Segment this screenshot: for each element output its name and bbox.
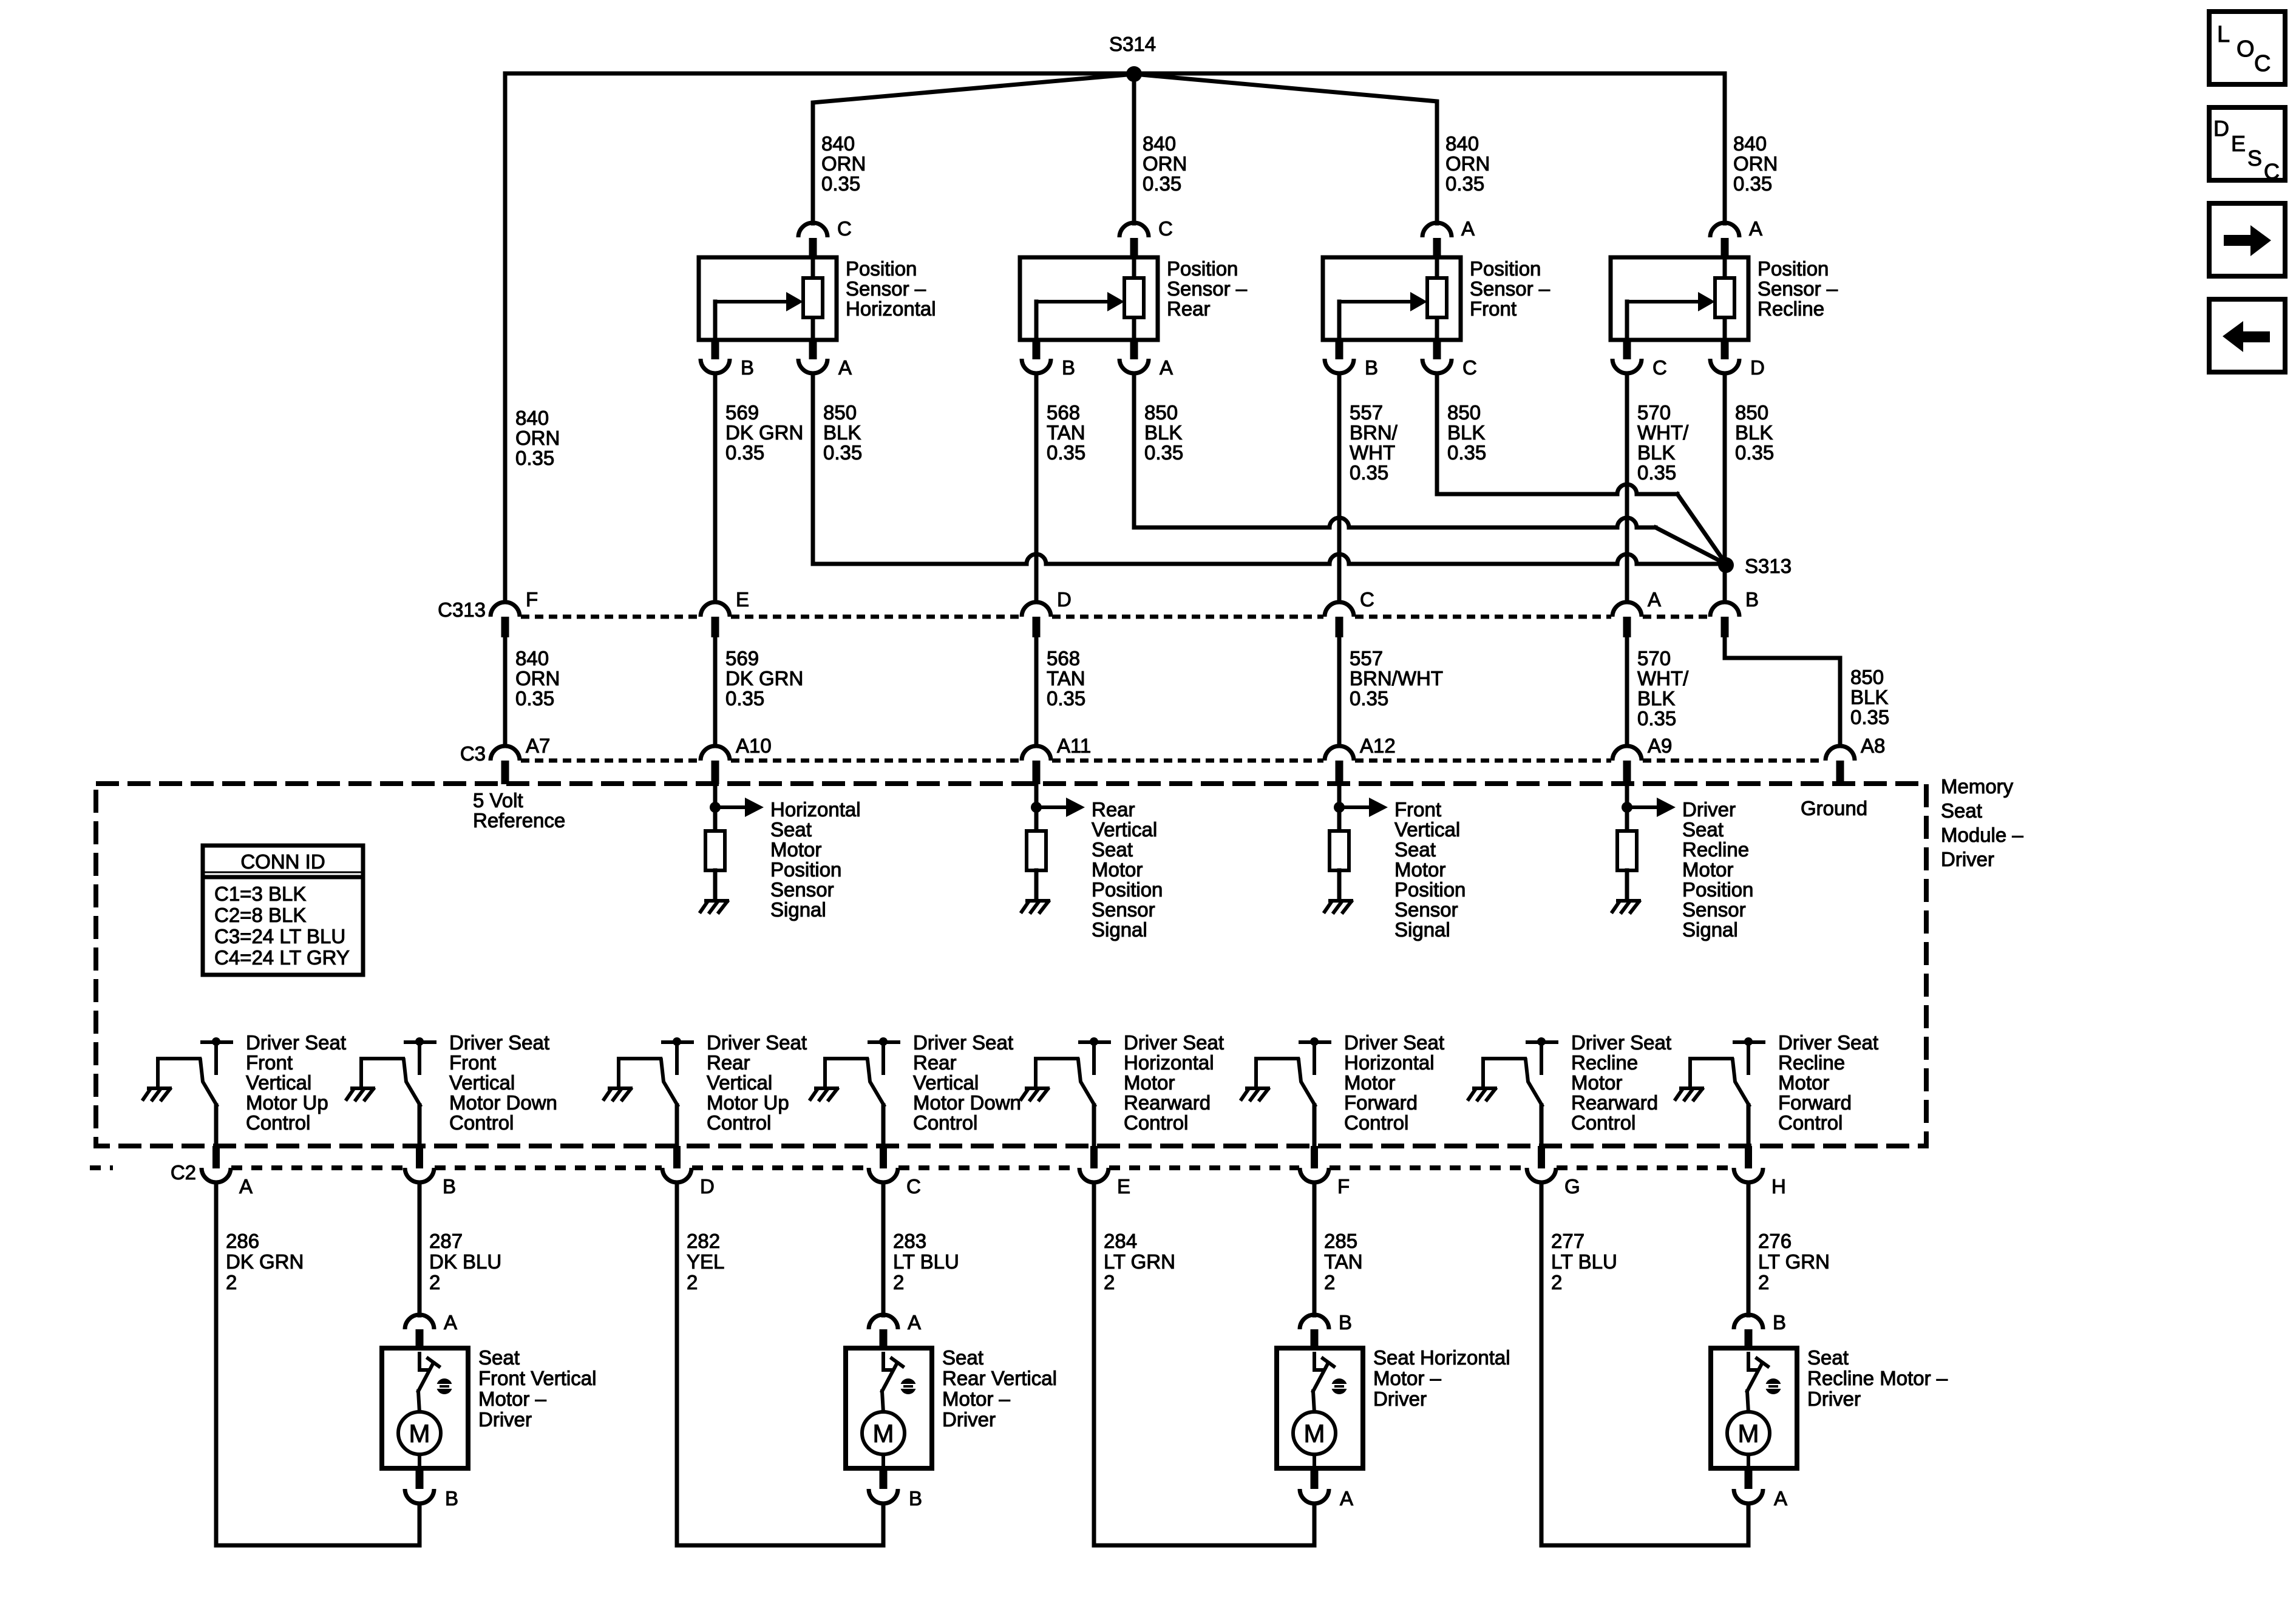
- svg-text:Position: Position: [1394, 878, 1466, 901]
- svg-text:A: A: [1648, 588, 1661, 611]
- svg-text:Motor: Motor: [1682, 858, 1733, 881]
- seat front vertical motor motor winding: [418, 1391, 419, 1412]
- svg-text:D: D: [700, 1175, 715, 1198]
- svg-text:C: C: [837, 217, 852, 240]
- ground symbol for switch E: [1021, 1088, 1048, 1100]
- svg-text:Rearward: Rearward: [1571, 1091, 1658, 1114]
- svg-text:Control: Control: [707, 1111, 771, 1134]
- svg-text:ORN: ORN: [1733, 152, 1778, 175]
- svg-text:2: 2: [1104, 1271, 1115, 1293]
- wire from C2 down and over to seat horizontal motor pin A: [1094, 1182, 1314, 1545]
- svg-text:WHT: WHT: [1350, 441, 1395, 464]
- position sensor Front wiper arrow: [1337, 302, 1342, 340]
- position sensor Recline connector pin D (bottom right): [1721, 340, 1729, 359]
- seat front vertical motor connector pin A (top): [405, 1315, 434, 1329]
- svg-text:F: F: [1337, 1175, 1350, 1198]
- svg-text:284: 284: [1104, 1230, 1137, 1252]
- switch output wire to C2 pin G: [1540, 1105, 1544, 1147]
- svg-text:Motor: Motor: [770, 838, 821, 861]
- svg-text:LT BLU: LT BLU: [1551, 1250, 1617, 1273]
- svg-text:Driver Seat: Driver Seat: [449, 1031, 549, 1054]
- connector C3 pin A12: [1325, 746, 1354, 761]
- seat front vertical motor connector pin B (bottom): [416, 1468, 424, 1489]
- svg-text:Driver Seat: Driver Seat: [913, 1031, 1013, 1054]
- connector C2 dotted line: [90, 1165, 113, 1170]
- svg-text:L: L: [2217, 22, 2230, 47]
- position sensor Recline connector pin C (bottom left): [1623, 340, 1631, 359]
- position sensor Recline potentiometer: [1723, 258, 1727, 278]
- driver switch Rear Vertical Motor Up arm: [619, 1057, 661, 1060]
- wire from C313 to C3 at x=2206: [1337, 637, 1342, 746]
- svg-text:Seat: Seat: [1941, 799, 1982, 822]
- svg-text:Driver Seat: Driver Seat: [707, 1031, 807, 1054]
- wire 850 BLK from sensor rear pin A to splice S313: [1132, 373, 1136, 527]
- wire from C2 down and over to seat front vertical motor pin B: [216, 1182, 419, 1545]
- svg-text:0.35: 0.35: [1144, 441, 1183, 464]
- svg-text:0.35: 0.35: [725, 687, 764, 710]
- svg-text:Driver Seat: Driver Seat: [246, 1031, 346, 1054]
- svg-text:Horizontal: Horizontal: [846, 297, 936, 320]
- svg-text:B: B: [443, 1175, 456, 1198]
- switch output wire to C2 pin A: [214, 1105, 219, 1147]
- svg-text:Rear: Rear: [1167, 297, 1211, 320]
- wire 557 BRN/WHT from sensor front pin B to C313 pin C: [1337, 373, 1342, 601]
- svg-text:Position: Position: [1682, 878, 1753, 901]
- svg-text:0.35: 0.35: [1447, 441, 1486, 464]
- svg-text:0.35: 0.35: [1637, 707, 1676, 730]
- svg-text:C: C: [1652, 356, 1667, 379]
- svg-text:Control: Control: [1124, 1111, 1188, 1134]
- svg-text:Motor: Motor: [1394, 858, 1445, 881]
- svg-text:B: B: [909, 1487, 922, 1510]
- signal arrow at x=1178: [715, 805, 745, 809]
- svg-text:BLK: BLK: [1637, 687, 1675, 710]
- seat horizontal motor body: [1277, 1348, 1363, 1468]
- connector C3 pin A9: [1612, 746, 1642, 761]
- svg-text:0.35: 0.35: [1047, 687, 1085, 710]
- svg-text:CONN ID: CONN ID: [240, 850, 325, 873]
- wire from C2 to seat recline motor pin B: [1747, 1182, 1751, 1315]
- seat recline motor circuit breaker: [1748, 1352, 1759, 1370]
- ground symbol for switch H: [1676, 1088, 1702, 1100]
- seat rear vertical motor body: [846, 1348, 932, 1468]
- svg-text:C3=24 LT BLU: C3=24 LT BLU: [214, 925, 345, 947]
- position sensor Front connector pin A (top): [1422, 223, 1452, 237]
- svg-text:Vertical: Vertical: [1394, 818, 1460, 841]
- svg-text:Motor: Motor: [1571, 1071, 1622, 1094]
- position sensor Horizontal connector pin A (bottom right): [809, 340, 817, 359]
- svg-text:Recline: Recline: [1682, 838, 1749, 861]
- position sensor Recline wiper arrow: [1625, 302, 1629, 340]
- pull-up resistor at x=2206: [1337, 807, 1342, 831]
- svg-text:C: C: [1158, 217, 1173, 240]
- forward arrow icon box: [2209, 203, 2285, 276]
- svg-text:ORN: ORN: [515, 427, 560, 449]
- svg-text:0.35: 0.35: [1637, 461, 1676, 484]
- svg-text:Sensor: Sensor: [1682, 898, 1746, 921]
- svg-text:Driver Seat: Driver Seat: [1124, 1031, 1224, 1054]
- position sensor Horizontal potentiometer: [811, 258, 815, 278]
- svg-text:WHT/: WHT/: [1637, 421, 1689, 444]
- svg-text:Signal: Signal: [1682, 918, 1738, 941]
- svg-text:Module –: Module –: [1941, 824, 2023, 846]
- svg-text:F: F: [526, 588, 538, 611]
- ground symbol for switch B: [347, 1088, 373, 1100]
- connector C2 pin G: [1538, 1146, 1545, 1168]
- connector C313 pin C: [1325, 602, 1354, 617]
- svg-text:557: 557: [1350, 647, 1383, 670]
- svg-text:557: 557: [1350, 401, 1383, 424]
- svg-text:C3: C3: [460, 742, 486, 765]
- svg-text:Motor Up: Motor Up: [707, 1091, 789, 1114]
- svg-text:2: 2: [1324, 1271, 1335, 1293]
- position sensor Horizontal connector pin C (top): [798, 223, 827, 237]
- svg-text:A11: A11: [1057, 734, 1091, 757]
- svg-text:568: 568: [1047, 647, 1080, 670]
- svg-text:283: 283: [893, 1230, 926, 1252]
- svg-text:S314: S314: [1109, 33, 1156, 55]
- svg-text:BRN/WHT: BRN/WHT: [1350, 667, 1443, 690]
- ground symbol for switch A: [143, 1088, 170, 1100]
- pull-up resistor at x=2680: [1625, 807, 1629, 831]
- svg-text:Rear Vertical: Rear Vertical: [942, 1367, 1057, 1389]
- position sensor Front potentiometer: [1435, 258, 1439, 278]
- connector C313 pin A: [1612, 602, 1642, 617]
- svg-text:850: 850: [1850, 666, 1884, 688]
- position sensor Rear wiper arrow: [1034, 302, 1039, 340]
- wire from C2 to seat rear vertical motor pin A: [881, 1182, 886, 1315]
- svg-text:840: 840: [515, 647, 549, 670]
- svg-text:Driver: Driver: [1682, 798, 1736, 821]
- position sensor Horizontal connector pin B (bottom left): [712, 340, 719, 359]
- wire 570 WHT/BLK from sensor recline pin C to C313 pin A: [1625, 373, 1629, 601]
- position sensor Rear connector pin B (bottom left): [1033, 340, 1041, 359]
- wire from C2 to seat front vertical motor pin A: [418, 1182, 422, 1315]
- svg-text:Motor Down: Motor Down: [913, 1091, 1021, 1114]
- wire from C313 to C3 at x=2680: [1625, 637, 1629, 746]
- connector C2 pin B: [416, 1146, 423, 1168]
- svg-text:0.35: 0.35: [515, 687, 554, 710]
- module input node at x=2206: [1337, 784, 1342, 807]
- svg-text:Horizontal: Horizontal: [1124, 1051, 1214, 1074]
- driver switch Front Vertical Motor Up supply bar: [212, 1037, 220, 1046]
- svg-text:C: C: [906, 1175, 921, 1198]
- position sensor Recline body: [1611, 257, 1748, 340]
- connector C313 pin E: [701, 602, 730, 617]
- svg-text:Driver: Driver: [1373, 1388, 1427, 1410]
- pull-up resistor at x=1707: [1034, 807, 1039, 831]
- svg-text:Motor: Motor: [1092, 858, 1143, 881]
- svg-text:LT BLU: LT BLU: [893, 1250, 959, 1273]
- svg-text:Signal: Signal: [1394, 918, 1450, 941]
- svg-text:DK GRN: DK GRN: [725, 421, 803, 444]
- svg-text:Driver: Driver: [1941, 848, 1994, 870]
- svg-text:287: 287: [429, 1230, 463, 1252]
- svg-text:DK GRN: DK GRN: [725, 667, 803, 690]
- svg-text:DK GRN: DK GRN: [226, 1250, 304, 1273]
- svg-text:850: 850: [1144, 401, 1178, 424]
- svg-text:Rear: Rear: [707, 1051, 750, 1074]
- svg-text:S313: S313: [1745, 555, 1792, 577]
- svg-text:Position: Position: [1758, 257, 1829, 280]
- svg-text:Seat Horizontal: Seat Horizontal: [1373, 1346, 1510, 1369]
- svg-text:B: B: [1745, 588, 1759, 611]
- svg-text:BLK: BLK: [1735, 421, 1773, 444]
- svg-text:Position: Position: [1092, 878, 1163, 901]
- splice S314: [1126, 66, 1142, 82]
- svg-text:0.35: 0.35: [515, 447, 554, 469]
- connector C3 dotted line: [521, 759, 699, 763]
- svg-text:D: D: [2213, 116, 2229, 141]
- svg-text:5 Volt: 5 Volt: [473, 789, 523, 812]
- DESC icon box: [2209, 107, 2285, 180]
- svg-text:Control: Control: [1344, 1111, 1408, 1134]
- CONN ID table: [203, 846, 363, 975]
- svg-text:M: M: [1738, 1419, 1759, 1448]
- svg-text:BLK: BLK: [1447, 421, 1485, 444]
- seat recline motor connector pin A (bottom): [1745, 1468, 1753, 1489]
- svg-text:Vertical: Vertical: [449, 1071, 515, 1094]
- connector C2 pin D: [673, 1146, 681, 1168]
- svg-text:0.35: 0.35: [725, 441, 764, 464]
- connector C3 pin A11: [1022, 746, 1051, 761]
- svg-text:A8: A8: [1861, 734, 1885, 757]
- svg-text:BLK: BLK: [1144, 421, 1182, 444]
- driver switch Rear Vertical Motor Up supply bar: [673, 1037, 681, 1046]
- svg-text:H: H: [1771, 1175, 1786, 1198]
- connector C313 pin B: [1710, 602, 1739, 617]
- svg-text:A9: A9: [1648, 734, 1672, 757]
- svg-text:B: B: [741, 356, 754, 379]
- ground symbol at x=2680: [1612, 901, 1639, 912]
- driver switch Recline Motor Rearward arm: [1483, 1057, 1525, 1060]
- svg-text:840: 840: [821, 132, 855, 155]
- svg-text:Recline: Recline: [1571, 1051, 1638, 1074]
- switch output wire to C2 pin C: [881, 1105, 886, 1147]
- connector C313 pin D: [1022, 602, 1051, 617]
- driver switch Front Vertical Motor Down arm: [361, 1057, 403, 1060]
- svg-text:Seat: Seat: [478, 1346, 520, 1369]
- svg-text:TAN: TAN: [1324, 1250, 1363, 1273]
- position sensor Rear potentiometer: [1132, 258, 1136, 278]
- svg-text:A: A: [1749, 217, 1762, 240]
- ground symbol at x=2206: [1325, 901, 1351, 912]
- svg-text:A: A: [838, 356, 852, 379]
- svg-text:ORN: ORN: [821, 152, 866, 175]
- svg-text:Position: Position: [846, 257, 917, 280]
- svg-text:570: 570: [1637, 647, 1671, 670]
- svg-text:Recline: Recline: [1778, 1051, 1845, 1074]
- svg-text:Signal: Signal: [1092, 918, 1147, 941]
- connector C2 pin H: [1745, 1146, 1752, 1168]
- svg-text:C: C: [1462, 356, 1477, 379]
- seat horizontal motor connector pin A (bottom): [1311, 1468, 1319, 1489]
- svg-text:D: D: [1750, 356, 1765, 379]
- svg-text:Control: Control: [449, 1111, 514, 1134]
- pull-up resistor at x=1178: [713, 807, 718, 831]
- wire S314 to sensor horizontal pin C: [813, 74, 1134, 223]
- seat horizontal motor motor winding: [1313, 1391, 1314, 1412]
- wire 850 BLK from sensor horizontal pin A to splice S313: [811, 373, 815, 564]
- svg-text:S: S: [2247, 146, 2262, 171]
- signal arrow at x=2206: [1339, 805, 1369, 809]
- svg-text:Motor –: Motor –: [942, 1388, 1011, 1410]
- wire 850 BLK from sensor recline pin D through splice S313 to C313 pin B: [1723, 373, 1727, 601]
- position sensor Horizontal wiper arrow: [713, 302, 718, 340]
- svg-text:C1=3 BLK: C1=3 BLK: [214, 883, 306, 905]
- svg-text:Seat: Seat: [1092, 838, 1133, 861]
- driver switch Rear Vertical Motor Down arm: [825, 1057, 867, 1060]
- wire 568 TAN from sensor rear pin B to C313 pin D: [1034, 373, 1039, 601]
- LOC icon box: [2209, 12, 2285, 84]
- svg-text:A: A: [239, 1175, 253, 1198]
- svg-text:Control: Control: [1571, 1111, 1635, 1134]
- svg-text:Seat: Seat: [1682, 818, 1724, 841]
- svg-text:Front: Front: [1394, 798, 1441, 821]
- svg-text:0.35: 0.35: [1445, 172, 1484, 195]
- svg-text:Sensor: Sensor: [1394, 898, 1458, 921]
- svg-text:C: C: [2254, 51, 2271, 76]
- svg-text:2: 2: [429, 1271, 440, 1293]
- wire 569 DK GRN from sensor horizontal pin B to C313 pin E: [713, 373, 718, 601]
- module input node at x=1707: [1034, 784, 1039, 807]
- svg-text:M: M: [409, 1419, 430, 1448]
- wire from C2 to seat horizontal motor pin B: [1313, 1182, 1317, 1315]
- connector C2 pin A: [212, 1146, 220, 1168]
- position sensor Front body: [1323, 257, 1461, 340]
- wire S314 down to sensor rear pin C: [1132, 74, 1136, 223]
- wire from C2 down and over to seat rear vertical motor pin B: [677, 1182, 883, 1545]
- switch output wire to C2 pin F: [1313, 1105, 1317, 1147]
- svg-text:0.35: 0.35: [1143, 172, 1181, 195]
- svg-text:Forward: Forward: [1778, 1091, 1852, 1114]
- seat front vertical motor circuit breaker: [419, 1352, 430, 1370]
- svg-text:C313: C313: [438, 598, 486, 621]
- svg-text:840: 840: [1143, 132, 1176, 155]
- svg-text:DK BLU: DK BLU: [429, 1250, 501, 1273]
- svg-text:Front: Front: [246, 1051, 293, 1074]
- wire from C313 to C3 at x=1178: [713, 637, 718, 746]
- svg-text:Signal: Signal: [770, 898, 826, 921]
- svg-text:Sensor –: Sensor –: [1167, 277, 1248, 300]
- driver switch Horizontal Motor Rearward arm: [1036, 1057, 1078, 1060]
- module input node at x=1178: [713, 784, 718, 807]
- svg-text:570: 570: [1637, 401, 1671, 424]
- svg-text:A: A: [908, 1311, 921, 1334]
- svg-text:Sensor –: Sensor –: [1758, 277, 1838, 300]
- svg-text:Motor Down: Motor Down: [449, 1091, 557, 1114]
- svg-text:568: 568: [1047, 401, 1080, 424]
- seat recline motor body: [1711, 1348, 1797, 1468]
- svg-text:840: 840: [515, 407, 549, 429]
- seat rear vertical motor circuit breaker: [883, 1352, 894, 1370]
- svg-text:Front: Front: [1470, 297, 1517, 320]
- svg-text:Front Vertical: Front Vertical: [478, 1367, 596, 1389]
- svg-text:Vertical: Vertical: [913, 1071, 979, 1094]
- svg-text:E: E: [2231, 131, 2246, 156]
- seat front vertical motor body: [382, 1348, 468, 1468]
- driver switch Front Vertical Motor Up arm: [158, 1057, 200, 1060]
- svg-text:D: D: [1057, 588, 1072, 611]
- svg-text:E: E: [1117, 1175, 1130, 1198]
- svg-text:Vertical: Vertical: [707, 1071, 772, 1094]
- module input node at x=2680: [1625, 784, 1629, 807]
- svg-text:G: G: [1564, 1175, 1580, 1198]
- connector C3 pin A8: [1826, 746, 1855, 761]
- seat rear vertical motor motor winding: [882, 1391, 883, 1412]
- svg-text:Motor –: Motor –: [478, 1388, 547, 1410]
- switch output wire to C2 pin B: [418, 1105, 422, 1147]
- driver switch Horizontal Motor Forward supply bar: [1310, 1037, 1319, 1046]
- svg-text:850: 850: [823, 401, 857, 424]
- svg-text:Sensor: Sensor: [770, 878, 834, 901]
- connector C313 pin F: [491, 602, 520, 617]
- driver switch Rear Vertical Motor Down supply bar: [879, 1037, 888, 1046]
- connector C3 pin A10: [701, 746, 730, 761]
- svg-text:0.35: 0.35: [1047, 441, 1085, 464]
- svg-text:2: 2: [893, 1271, 904, 1293]
- driver switch Horizontal Motor Forward arm: [1256, 1057, 1298, 1060]
- svg-text:A12: A12: [1360, 734, 1396, 757]
- svg-text:Horizontal: Horizontal: [1344, 1051, 1435, 1074]
- splice S313: [1718, 557, 1734, 573]
- connector C2 pin F: [1311, 1146, 1318, 1168]
- back arrow icon box: [2209, 299, 2285, 372]
- svg-text:B: B: [1773, 1311, 1786, 1334]
- ground symbol for switch C: [810, 1088, 837, 1100]
- svg-text:Driver: Driver: [478, 1408, 532, 1431]
- wire S314 to sensor front pin A: [1134, 74, 1437, 223]
- seat horizontal motor connector pin B (top): [1300, 1315, 1329, 1329]
- svg-text:Motor Up: Motor Up: [246, 1091, 328, 1114]
- svg-text:TAN: TAN: [1047, 667, 1085, 690]
- svg-text:BLK: BLK: [823, 421, 861, 444]
- svg-text:BRN/: BRN/: [1350, 421, 1398, 444]
- wire from C2 down and over to seat recline motor pin A: [1541, 1182, 1748, 1545]
- svg-text:Position: Position: [770, 858, 841, 881]
- svg-text:A: A: [1461, 217, 1475, 240]
- svg-text:840: 840: [1445, 132, 1479, 155]
- svg-text:Driver Seat: Driver Seat: [1344, 1031, 1444, 1054]
- svg-text:282: 282: [687, 1230, 720, 1252]
- svg-text:BLK: BLK: [1850, 686, 1888, 708]
- svg-text:Seat: Seat: [1394, 838, 1436, 861]
- svg-text:286: 286: [226, 1230, 259, 1252]
- svg-text:285: 285: [1324, 1230, 1357, 1252]
- signal arrow at x=2680: [1627, 805, 1657, 809]
- svg-text:A7: A7: [526, 734, 550, 757]
- svg-text:A: A: [444, 1311, 457, 1334]
- svg-text:Sensor –: Sensor –: [1470, 277, 1550, 300]
- position sensor Front connector pin B (bottom left): [1336, 340, 1343, 359]
- connector C3 pin A7: [491, 746, 520, 761]
- seat recline motor motor winding: [1747, 1391, 1748, 1412]
- svg-text:0.35: 0.35: [1350, 687, 1388, 710]
- svg-text:M: M: [1304, 1419, 1325, 1448]
- svg-text:Control: Control: [246, 1111, 310, 1134]
- svg-text:Motor: Motor: [1344, 1071, 1395, 1094]
- svg-text:C: C: [2264, 159, 2280, 184]
- svg-text:850: 850: [1735, 401, 1768, 424]
- svg-text:C4=24 LT GRY: C4=24 LT GRY: [214, 946, 350, 969]
- svg-text:0.35: 0.35: [1733, 172, 1772, 195]
- svg-text:Ground: Ground: [1801, 797, 1867, 819]
- svg-text:ORN: ORN: [1143, 152, 1187, 175]
- svg-text:E: E: [736, 588, 749, 611]
- driver switch Horizontal Motor Rearward supply bar: [1090, 1037, 1098, 1046]
- svg-text:C: C: [1360, 588, 1374, 611]
- driver switch Recline Motor Rearward supply bar: [1537, 1037, 1546, 1046]
